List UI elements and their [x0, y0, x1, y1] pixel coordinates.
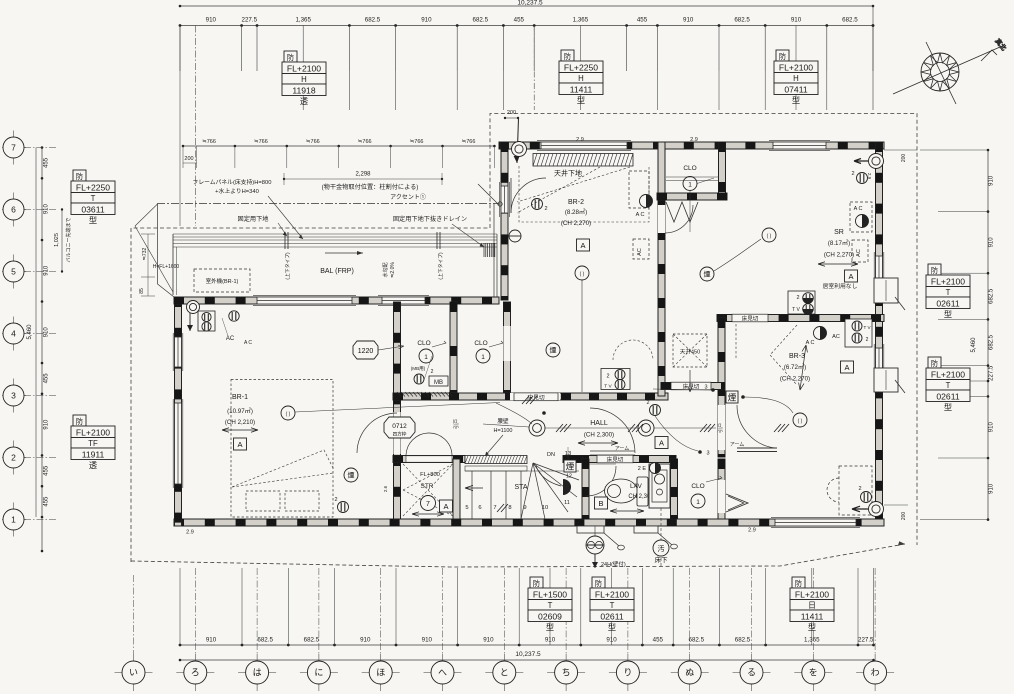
svg-text:A: A	[659, 438, 664, 447]
svg-text:910: 910	[206, 637, 217, 644]
svg-text:( ): ( )	[286, 412, 291, 418]
hall north opening with floor strip	[510, 393, 560, 400]
wall: CLO top-middle east	[719, 142, 726, 200]
wall vent north entry	[512, 142, 527, 157]
balcony right edge	[493, 204, 495, 298]
grid bubble ろ	[176, 654, 214, 691]
grid bubble 7	[2, 131, 26, 165]
svg-text:防: 防	[76, 417, 83, 426]
svg-text:455: 455	[653, 637, 664, 644]
svg-text:910: 910	[989, 422, 995, 433]
svg-text:910: 910	[206, 17, 217, 24]
outer wall: east	[876, 142, 883, 526]
svg-text:型: 型	[608, 623, 616, 632]
svg-text:≒766: ≒766	[202, 139, 216, 145]
STR double door	[406, 433, 428, 455]
grid bubble 5	[2, 255, 26, 289]
svg-text:ろ: ろ	[191, 668, 200, 678]
finish mark A (SR)	[845, 270, 858, 282]
grid line left witness	[179, 26, 181, 227]
finish mark A (STR)	[440, 500, 453, 512]
ceiling base hatch (tenjo shitaji)	[533, 154, 633, 178]
AC corner BR-3	[814, 327, 827, 340]
vent sleeve 1	[577, 526, 604, 533]
svg-text:(物干金物取付位置：柱割付による): (物干金物取付位置：柱割付による)	[322, 183, 419, 191]
CLO shelf line	[666, 176, 719, 178]
balcony left edge	[172, 234, 174, 295]
grid line wa top	[872, 6, 874, 110]
svg-text:(CH 2,210): (CH 2,210)	[225, 419, 255, 426]
svg-text:LAV: LAV	[630, 483, 642, 490]
svg-text:FL+2250: FL+2250	[564, 62, 598, 72]
dashed future arc	[613, 340, 653, 360]
svg-text:682.5: 682.5	[304, 637, 320, 644]
smoke box stair	[564, 460, 576, 472]
svg-text:と: と	[500, 668, 509, 678]
grid bubble へ	[424, 654, 462, 691]
window spec box FL+2100 / 11411 (bottom)	[790, 577, 834, 632]
svg-text:910: 910	[44, 265, 50, 276]
svg-text:200: 200	[901, 154, 907, 163]
svg-text:5: 5	[465, 505, 468, 511]
grid line と	[503, 568, 505, 654]
svg-text:≒2.0%: ≒2.0%	[390, 262, 396, 278]
grid bubble 2	[2, 441, 26, 475]
grid bubble 6	[2, 193, 26, 227]
outlet 2 (BR-3)	[861, 492, 872, 503]
svg-text:STA: STA	[514, 484, 527, 491]
svg-text:910: 910	[483, 637, 494, 644]
BR-3 height arrow	[799, 345, 808, 390]
svg-text:フレームパネル(床支持)H=800: フレームパネル(床支持)H=800	[193, 178, 272, 186]
svg-text:B: B	[598, 499, 603, 508]
svg-text:3: 3	[706, 451, 709, 457]
svg-text:1: 1	[424, 354, 428, 361]
svg-text:煙: 煙	[728, 393, 737, 403]
stair down guide curve	[536, 466, 561, 486]
hall post east	[638, 420, 654, 436]
svg-text:3: 3	[11, 391, 16, 401]
grid bubble ぬ	[671, 654, 709, 691]
svg-text:バルコニー先端まで: バルコニー先端まで	[65, 218, 72, 263]
bottom segmented dimension line	[180, 644, 874, 646]
svg-text:455: 455	[44, 496, 50, 507]
svg-text:T: T	[91, 194, 96, 203]
svg-text:日: 日	[808, 601, 816, 610]
svg-text:455: 455	[44, 373, 50, 384]
door opening CLO2	[503, 326, 510, 361]
svg-text:9: 9	[523, 505, 526, 511]
washbasin	[649, 464, 670, 508]
ceiling light BR-1	[281, 406, 295, 420]
wall: CLO1/CLO2 divider	[450, 302, 457, 396]
svg-text:02611: 02611	[936, 298, 959, 308]
svg-text:型: 型	[944, 310, 952, 319]
door opening CLO bottom	[718, 480, 725, 513]
north compass	[893, 37, 1009, 104]
svg-text:4: 4	[11, 329, 16, 339]
svg-text:6: 6	[478, 505, 481, 511]
svg-text:四方枠: 四方枠	[393, 431, 407, 438]
svg-text:1,365: 1,365	[573, 17, 589, 24]
svg-text:11911: 11911	[82, 449, 105, 459]
grid line へ	[442, 568, 444, 654]
door opening SR	[658, 205, 665, 233]
svg-text:2,298: 2,298	[355, 172, 371, 178]
svg-text:2: 2	[544, 206, 547, 212]
svg-text:H: H	[793, 74, 799, 83]
svg-text:200: 200	[507, 110, 516, 116]
grid line 7	[24, 147, 57, 149]
wall: stair half wall hatched	[465, 456, 527, 464]
wall vent SE	[869, 502, 884, 517]
outlet 2 (BR-1)	[338, 502, 349, 513]
grid line 1	[24, 519, 57, 521]
toilet	[605, 477, 649, 506]
svg-text:AC: AC	[856, 249, 862, 257]
grid line ち	[565, 568, 567, 654]
svg-text:は: は	[253, 668, 262, 678]
grid line 2	[24, 457, 57, 459]
wire outlet to node 3 lower	[655, 416, 698, 451]
svg-text:型: 型	[808, 623, 816, 632]
svg-text:2: 2	[431, 369, 434, 375]
svg-text:型: 型	[577, 96, 585, 105]
svg-text:BR-2: BR-2	[568, 199, 584, 206]
window spec box FL+1500 / 02609	[528, 577, 572, 632]
outlet 2 NE	[857, 173, 868, 184]
finish mark A (BR-2)	[577, 239, 590, 251]
hall post west	[529, 420, 545, 436]
bottom overall dimension line 10,237.5	[180, 659, 874, 661]
svg-text:FL+2100: FL+2100	[76, 427, 110, 437]
grid line ぬ	[689, 568, 691, 654]
leader from boundary corner	[135, 204, 158, 226]
svg-text:910: 910	[44, 419, 50, 430]
svg-text:型: 型	[546, 623, 554, 632]
right segmented dimension line	[987, 150, 989, 520]
svg-text:1,025: 1,025	[54, 233, 60, 247]
TV box BR-3	[788, 291, 815, 314]
svg-text:1: 1	[696, 499, 700, 506]
svg-text:11411: 11411	[801, 611, 824, 621]
svg-text:6: 6	[11, 205, 16, 215]
svg-text:2: 2	[11, 453, 16, 463]
svg-text:5,460: 5,460	[27, 324, 33, 340]
svg-text:防: 防	[595, 579, 602, 588]
wall: CLO top-middle west	[658, 142, 665, 200]
wall: BR-1 east	[394, 302, 401, 519]
svg-text:1220: 1220	[358, 348, 374, 355]
svg-text:10,237.5: 10,237.5	[517, 0, 543, 7]
svg-text:(CH 2,270): (CH 2,270)	[780, 376, 810, 383]
svg-text:T V: T V	[604, 384, 612, 390]
svg-text:910: 910	[683, 17, 694, 24]
window: west wall lower	[173, 399, 183, 488]
shutter handle lower	[895, 380, 905, 393]
grid line i	[133, 575, 135, 654]
svg-text:3: 3	[704, 385, 707, 391]
gas meter symbol	[586, 536, 604, 554]
accent dash-dot line	[157, 203, 499, 205]
svg-text:200: 200	[901, 512, 907, 521]
svg-text:防: 防	[564, 52, 571, 61]
finish mark A (BR-1)	[234, 438, 247, 450]
svg-text:防: 防	[533, 579, 540, 588]
svg-text:腰壁: 腰壁	[497, 417, 509, 425]
svg-text:煙: 煙	[550, 345, 557, 354]
svg-text:≒766: ≒766	[358, 139, 372, 145]
svg-text:910: 910	[791, 17, 802, 24]
svg-text:1: 1	[688, 182, 692, 189]
svg-text:FL+2100: FL+2100	[931, 369, 965, 379]
svg-text:床見切: 床見切	[742, 315, 759, 323]
svg-text:5,460: 5,460	[971, 337, 977, 353]
smoke detector (SR)	[700, 267, 714, 281]
766 module dimension line	[183, 145, 494, 147]
svg-text:A: A	[844, 363, 849, 372]
svg-text:防: 防	[795, 579, 802, 588]
north arrow flag	[981, 50, 997, 61]
svg-text:る: る	[747, 668, 756, 678]
svg-text:(CH 2,270): (CH 2,270)	[824, 252, 854, 259]
svg-text:2: 2	[796, 295, 799, 301]
svg-text:2.9: 2.9	[690, 137, 698, 143]
svg-text:を: を	[809, 668, 818, 678]
node dots 3	[711, 388, 715, 392]
svg-text:TF: TF	[88, 439, 98, 448]
svg-text:T: T	[610, 601, 615, 610]
window: east wall mid	[874, 344, 884, 374]
grid bubble 4	[2, 317, 26, 351]
svg-text:2 E: 2 E	[638, 466, 647, 472]
svg-text:2: 2	[866, 337, 869, 343]
bottom dimension witness lines	[179, 568, 181, 645]
door opening BR-1	[393, 412, 400, 454]
svg-text:FL+2100: FL+2100	[779, 62, 813, 72]
svg-text:HALL: HALL	[590, 420, 608, 427]
svg-text:ほ: ほ	[376, 668, 385, 678]
grid bubble と	[485, 654, 523, 691]
CLO arrows	[432, 341, 446, 347]
svg-text:682.5: 682.5	[257, 637, 273, 644]
svg-text:455: 455	[637, 17, 648, 24]
window: west wall upper	[173, 333, 183, 371]
grid line を	[812, 568, 814, 654]
top overall dimension line 10,237.5	[180, 5, 873, 7]
window: north wall west	[537, 141, 631, 151]
svg-text:天井下地: 天井下地	[554, 169, 582, 178]
right witness lines	[938, 149, 988, 151]
svg-text:910: 910	[360, 637, 371, 644]
svg-text:防: 防	[931, 266, 938, 275]
svg-text:11411: 11411	[570, 84, 593, 94]
shutter handle upper	[895, 297, 905, 310]
window: CLO north	[378, 296, 429, 306]
outlet 2 (entry)	[532, 199, 543, 210]
svg-text:2: 2	[606, 374, 609, 380]
svg-text:室外機(BR-1): 室外機(BR-1)	[206, 277, 239, 285]
svg-text:1: 1	[481, 354, 485, 361]
ceiling 450 box	[673, 334, 707, 367]
svg-text:2.9: 2.9	[186, 530, 194, 536]
svg-text:T V: T V	[792, 307, 800, 313]
finish mark A (HALL)	[655, 437, 668, 449]
grid bubble 1	[2, 503, 26, 537]
outer wall: north (upper section)	[499, 142, 884, 149]
svg-text:682.5: 682.5	[735, 637, 751, 644]
200 sub dimension	[183, 162, 197, 164]
svg-text:H: H	[301, 75, 307, 84]
CLO folding door	[726, 494, 748, 512]
grid bubble ほ	[362, 654, 400, 691]
grid bubble る	[733, 654, 771, 691]
svg-text:682.5: 682.5	[734, 17, 750, 24]
grid line り	[627, 568, 629, 654]
bottom grid lines through spec boxes	[549, 568, 551, 645]
svg-text:引戸: 引戸	[453, 419, 460, 429]
svg-text:FL+2100: FL+2100	[931, 276, 965, 286]
tread hatch	[497, 504, 508, 512]
svg-text:910: 910	[422, 637, 433, 644]
svg-text:(CH 2,270): (CH 2,270)	[561, 220, 591, 227]
grid line る	[751, 568, 753, 654]
AC dashed box SR	[850, 202, 872, 232]
svg-text:床見切: 床見切	[607, 455, 624, 463]
svg-text:2: 2	[858, 486, 861, 492]
octagon 0712	[384, 417, 415, 438]
window spec box FL+2100 / 02611 (right upper)	[926, 264, 970, 319]
top dimension witness lines	[179, 26, 181, 72]
leader from CLO1 down	[689, 190, 691, 232]
grid line 5	[24, 271, 57, 273]
svg-text:12: 12	[566, 474, 572, 480]
MB box	[429, 376, 448, 386]
window spec box FL+2100 / 02611 (bottom)	[590, 577, 634, 632]
svg-text:に: に	[314, 668, 323, 678]
svg-text:2.9: 2.9	[867, 173, 872, 180]
grid line 4	[24, 333, 57, 335]
svg-text:(8.28㎡): (8.28㎡)	[565, 208, 587, 216]
AC lower dashed (BR-2)	[633, 239, 649, 259]
svg-text:( ): ( )	[580, 272, 585, 278]
outer wall: west of upper section	[501, 142, 508, 300]
window spec box FL+2100 / 11911	[71, 415, 115, 470]
SR door arc	[665, 205, 693, 233]
grid line chi-top dashdot	[533, 26, 535, 111]
wall: BR-3 west (sliding door wall)	[718, 318, 725, 457]
stair treads	[465, 466, 579, 519]
svg-text:水勾配: 水勾配	[382, 262, 389, 277]
svg-text:BAL (FRP): BAL (FRP)	[320, 268, 354, 275]
wall: CLO2 east / BR-2 west lower	[504, 302, 511, 396]
floor strip label BR-3 north	[732, 314, 768, 322]
balcony corner chamfer	[158, 284, 175, 297]
svg-text:03611: 03611	[81, 204, 104, 214]
svg-text:A C: A C	[806, 340, 815, 346]
grid bubble は	[238, 654, 276, 691]
svg-text:02611: 02611	[600, 611, 623, 621]
wall: hall north	[393, 393, 668, 400]
BR-3 sliding door	[737, 447, 777, 449]
svg-text:引戸: 引戸	[717, 423, 724, 433]
window spec box FL+2250 / 03611	[71, 170, 115, 225]
svg-text:T: T	[946, 288, 951, 297]
wire wall corner to post	[496, 403, 532, 424]
svg-text:682.5: 682.5	[473, 17, 489, 24]
outer wall: south	[174, 519, 884, 526]
wall: stair-east block	[563, 456, 582, 463]
svg-text:2.9: 2.9	[748, 528, 756, 534]
window/door: upper west wall	[500, 182, 510, 217]
grid line ro top	[194, 26, 196, 227]
vent sleeve 2	[634, 526, 658, 533]
svg-text:CLO: CLO	[417, 340, 430, 347]
svg-text:A: A	[237, 440, 242, 449]
outer wall: west lower	[175, 297, 182, 526]
svg-text:天井450: 天井450	[680, 348, 701, 356]
balcony floor arrow	[325, 252, 363, 254]
left local dimension 1,025 to balcony edge	[61, 210, 63, 272]
svg-text:2.9: 2.9	[576, 137, 584, 143]
shutter box right lower	[874, 368, 898, 392]
grid bubble を	[794, 654, 832, 691]
grid line わ	[874, 568, 876, 654]
svg-text:BR-1: BR-1	[232, 394, 248, 401]
svg-text:10,237.5: 10,237.5	[515, 651, 541, 658]
grid bubble ち	[547, 654, 585, 691]
svg-text:≒766: ≒766	[410, 139, 424, 145]
svg-text:透: 透	[300, 97, 308, 106]
svg-text:(8.17㎡): (8.17㎡)	[828, 239, 850, 247]
svg-text:H=FL+1600: H=FL+1600	[153, 264, 180, 270]
outlet MB	[414, 374, 424, 384]
AC rotated dashed (SR)	[852, 240, 868, 262]
svg-text:床下: 床下	[655, 555, 669, 564]
svg-text:CLO: CLO	[683, 165, 696, 172]
svg-text:682.5: 682.5	[989, 334, 995, 350]
svg-text:910: 910	[44, 203, 50, 214]
svg-text:+水上よりH=340: +水上よりH=340	[215, 187, 259, 195]
svg-text:910: 910	[989, 483, 995, 494]
svg-text:(上下タイプ): (上下タイプ)	[284, 252, 291, 280]
svg-text:227.5: 227.5	[989, 365, 995, 381]
svg-text:T: T	[548, 601, 553, 610]
switch circle near BR-2 door	[509, 230, 521, 242]
BR-1 door arc	[357, 413, 397, 453]
svg-text:(CH 2,300): (CH 2,300)	[584, 432, 614, 439]
svg-text:≒766: ≒766	[254, 139, 268, 145]
outdoor unit BR-1	[194, 269, 250, 292]
finish mark A (BR-3)	[841, 361, 854, 373]
svg-text:( ): ( )	[798, 419, 803, 425]
svg-text:A: A	[443, 502, 448, 511]
svg-text:7: 7	[493, 505, 496, 511]
window spec box FL+2250 / 11411	[559, 50, 603, 105]
svg-text:い: い	[129, 668, 138, 678]
outlet 2 (hall)	[650, 405, 661, 416]
svg-text:ぬ: ぬ	[685, 668, 694, 678]
svg-text:682.5: 682.5	[689, 637, 705, 644]
BR-3 dashed closet	[827, 466, 872, 515]
svg-text:A: A	[848, 272, 853, 281]
svg-text:07411: 07411	[784, 84, 807, 94]
grid bubble に	[300, 654, 338, 691]
svg-text:A C: A C	[244, 340, 252, 346]
svg-text:透: 透	[89, 461, 97, 470]
svg-text:7: 7	[426, 501, 430, 508]
top grid lines through spec boxes	[302, 26, 304, 111]
